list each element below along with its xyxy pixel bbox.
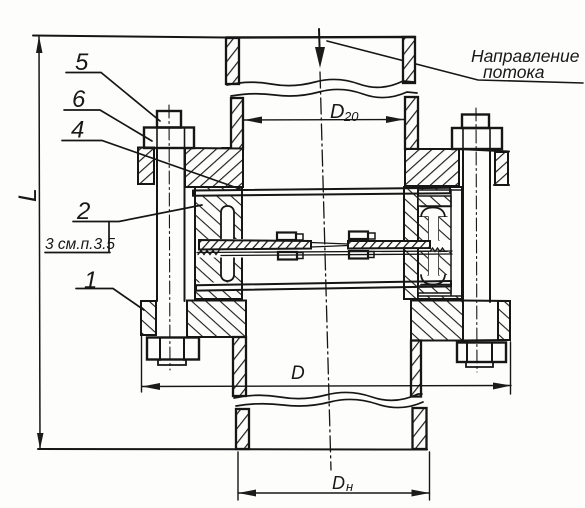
stud bolt right: cap bbox=[452, 115, 506, 368]
hatched orifice band bbox=[199, 240, 311, 250]
orifice band passage bbox=[196, 240, 241, 257]
callout 1 bbox=[76, 267, 144, 310]
nut bbox=[144, 128, 194, 149]
washer right bbox=[495, 152, 508, 185]
body right block bbox=[404, 187, 462, 299]
svg-text:потока: потока bbox=[483, 62, 545, 82]
washer left bbox=[138, 148, 154, 185]
lower seat: stem and dome (mirror) bbox=[419, 252, 447, 275]
flange slab left bbox=[187, 301, 246, 338]
svg-text:D: D bbox=[291, 363, 305, 384]
dimension D20 bbox=[244, 101, 404, 124]
lower pipe section (below break) bbox=[236, 408, 427, 449]
bolt end below nut bbox=[158, 360, 186, 365]
pipe centerline bbox=[320, 72, 331, 470]
stud bolt right centerline bbox=[476, 108, 477, 372]
washer right bbox=[498, 301, 510, 340]
bottom nut bbox=[147, 338, 199, 360]
flow direction leader bbox=[327, 41, 583, 83]
top flange, left half bbox=[138, 148, 243, 188]
center thin disc wedge bbox=[311, 243, 348, 248]
lock washer zigzag left bbox=[198, 251, 219, 255]
bottom clamping ring plate bbox=[196, 281, 451, 291]
bottom flange, left half bbox=[141, 301, 246, 338]
bolt end below nut bbox=[466, 362, 493, 367]
upper pipe break (wavy lines) bbox=[227, 79, 417, 97]
nut bbox=[452, 128, 502, 149]
top plate passage (white band) bbox=[196, 190, 241, 197]
svg-text:L: L bbox=[14, 188, 42, 202]
bottom nut bbox=[457, 343, 506, 363]
callout 6 bbox=[64, 86, 152, 141]
lower clamp nuts bbox=[278, 252, 297, 260]
svg-text:3 см.п.3.5: 3 см.п.3.5 bbox=[45, 236, 115, 253]
wall column bbox=[404, 187, 418, 299]
upper clamp bolt heads bbox=[277, 233, 296, 241]
shaft through flanges bbox=[462, 149, 464, 302]
shaft through flanges bbox=[156, 148, 158, 301]
svg-text:н: н bbox=[346, 479, 353, 494]
upper hatch band bbox=[418, 187, 462, 190]
lower hatch band bbox=[418, 286, 451, 293]
svg-text:D: D bbox=[332, 473, 345, 493]
dimension L bbox=[14, 36, 427, 450]
callout 4 bbox=[62, 117, 243, 191]
upper pipe section (above break) bbox=[226, 37, 415, 84]
lower thin plate line bbox=[197, 251, 452, 256]
flange slab left bbox=[185, 148, 243, 187]
svg-text:20: 20 bbox=[343, 109, 359, 124]
svg-text:4: 4 bbox=[71, 117, 84, 144]
upper pipe section (below break, to flange) bbox=[231, 97, 418, 149]
bottom flange, right half bbox=[411, 301, 510, 341]
hub flare left bbox=[222, 147, 231, 149]
upper seat: dome and stem bbox=[421, 206, 451, 208]
retaining strip bbox=[450, 190, 452, 206]
lower pipe break (wavy lines) bbox=[234, 392, 423, 407]
lock washer zigzag right bbox=[430, 248, 445, 252]
body left block bbox=[195, 187, 242, 299]
callout 2 bbox=[73, 198, 202, 225]
svg-text:D: D bbox=[330, 101, 344, 123]
callout 5 bbox=[66, 49, 160, 121]
lower pipe section (flange to break) bbox=[233, 337, 421, 397]
dimension D bbox=[142, 336, 512, 394]
stud bolt left centerline bbox=[169, 105, 170, 370]
top clamping ring plate bbox=[193, 188, 450, 196]
orifice plate assembly bbox=[196, 232, 452, 260]
callout 3 note box bbox=[45, 222, 115, 254]
flange slab right bbox=[405, 149, 459, 186]
top flange, right half bbox=[405, 149, 509, 186]
washer left bbox=[141, 301, 156, 335]
body left slot bbox=[221, 206, 234, 281]
flow direction arrow bbox=[315, 29, 325, 68]
svg-text:6: 6 bbox=[72, 86, 86, 113]
stud bolt left: cap bbox=[144, 111, 199, 365]
flow direction label bbox=[471, 46, 580, 82]
bottom plate passage bbox=[196, 283, 241, 291]
dimension Dн bbox=[238, 452, 430, 500]
svg-text:1: 1 bbox=[84, 267, 97, 294]
